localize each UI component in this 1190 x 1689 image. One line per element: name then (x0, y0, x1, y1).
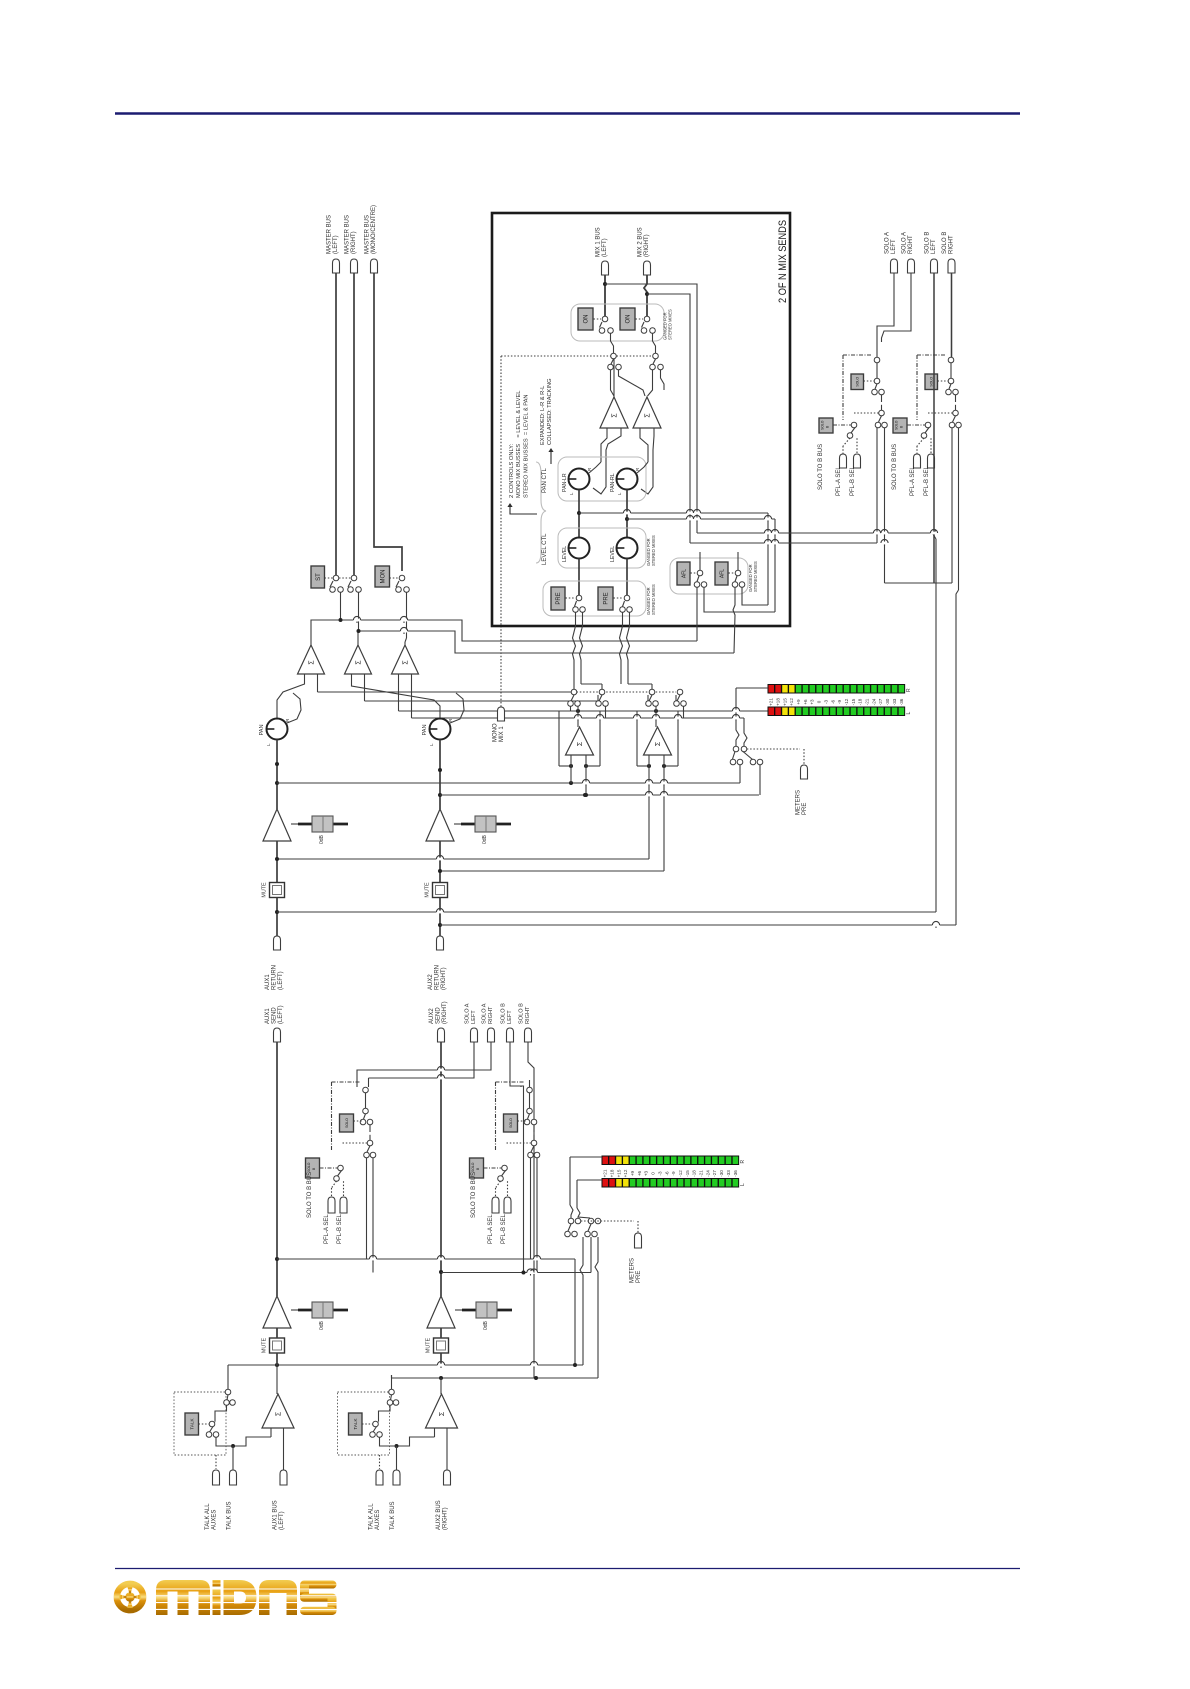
svg-text:STEREO MIXES: STEREO MIXES (667, 309, 672, 340)
svg-text:0dB: 0dB (482, 834, 488, 844)
svg-text:-18: -18 (858, 698, 863, 705)
svg-text:SOLO TO B BUS: SOLO TO B BUS (471, 1172, 477, 1218)
svg-text:+6: +6 (637, 1170, 642, 1176)
svg-text:-27: -27 (712, 1170, 717, 1177)
svg-text:0dB: 0dB (319, 1320, 325, 1330)
svg-text:0: 0 (817, 700, 822, 703)
svg-text:AUXES: AUXES (375, 1510, 381, 1530)
svg-text:+12: +12 (789, 698, 794, 706)
svg-text:(RIGHT): (RIGHT) (443, 1507, 449, 1530)
svg-text:AUX1: AUX1 (265, 974, 271, 990)
svg-text:+9: +9 (630, 1170, 635, 1176)
svg-text:R: R (906, 688, 912, 692)
svg-text:-6: -6 (830, 700, 835, 705)
svg-text:+6: +6 (803, 699, 808, 705)
svg-text:-15: -15 (851, 698, 856, 705)
svg-text:+3: +3 (810, 699, 815, 705)
svg-text:+3: +3 (644, 1170, 649, 1176)
svg-text:LEFT: LEFT (931, 239, 937, 254)
svg-text:TALK: TALK (353, 1417, 358, 1429)
svg-text:-3: -3 (657, 1171, 662, 1176)
svg-text:PAN CTL: PAN CTL (542, 467, 548, 493)
svg-text:AUX1 BUS: AUX1 BUS (273, 1500, 279, 1530)
svg-text:MIX 2 BUS: MIX 2 BUS (638, 227, 644, 257)
svg-text:ON: ON (584, 315, 590, 324)
svg-text:RIGHT: RIGHT (488, 1006, 494, 1024)
svg-text:-9: -9 (671, 1171, 676, 1176)
svg-text:(LEFT): (LEFT) (602, 238, 608, 257)
svg-text:SOLO TO B BUS: SOLO TO B BUS (892, 444, 898, 490)
svg-text:PRE: PRE (636, 1271, 642, 1283)
svg-text:SOLO A: SOLO A (465, 1003, 471, 1024)
svg-text:R: R (740, 1160, 746, 1164)
svg-text:0dB: 0dB (319, 834, 325, 844)
svg-text:PFL-A SEL: PFL-A SEL (910, 466, 916, 496)
svg-text:Σ: Σ (356, 660, 363, 665)
svg-text:+12: +12 (623, 1169, 628, 1177)
svg-text:MUTE: MUTE (425, 882, 431, 898)
svg-text:(RIGHT): (RIGHT) (442, 1001, 448, 1024)
svg-text:(RIGHT): (RIGHT) (441, 967, 447, 990)
svg-text:PFL-A SEL: PFL-A SEL (324, 1214, 330, 1244)
svg-text:PFL-B SEL: PFL-B SEL (337, 1213, 343, 1244)
svg-text:MUTE: MUTE (426, 1337, 432, 1353)
svg-text:PFL-A SEL: PFL-A SEL (836, 466, 842, 496)
svg-text:MASTER BUS: MASTER BUS (345, 215, 351, 254)
svg-text:MIX 1 BUS: MIX 1 BUS (596, 227, 602, 257)
svg-text:RIGHT: RIGHT (525, 1006, 531, 1024)
svg-text:RIGHT: RIGHT (908, 235, 914, 254)
svg-text:STEREO MIXES: STEREO MIXES (651, 584, 656, 615)
svg-text:LEFT: LEFT (507, 1010, 513, 1024)
svg-text:SOLO A: SOLO A (482, 1003, 488, 1024)
svg-text:Σ: Σ (612, 413, 619, 418)
svg-text:PRE: PRE (604, 592, 610, 604)
svg-text:-18: -18 (692, 1170, 697, 1177)
svg-text:+21: +21 (769, 698, 774, 706)
svg-text:SOLO: SOLO (856, 377, 860, 387)
svg-text:METERS: METERS (796, 790, 802, 815)
svg-text:AUX1: AUX1 (265, 1008, 271, 1024)
svg-text:L: L (266, 743, 271, 746)
svg-text:TALK BUS: TALK BUS (390, 1501, 396, 1530)
svg-text:PAN-RL: PAN-RL (610, 473, 616, 492)
svg-text:SOLO: SOLO (930, 377, 934, 387)
svg-text:Σ: Σ (403, 660, 410, 665)
svg-text:STEREO MIX BUSSES = LEVEL & P: STEREO MIX BUSSES = LEVEL & PAN (523, 394, 529, 498)
svg-text:2 OF N MIX SENDS: 2 OF N MIX SENDS (777, 220, 789, 303)
svg-text:SEND: SEND (272, 1007, 278, 1024)
svg-text:PAN-LR: PAN-LR (562, 473, 568, 492)
svg-text:PAN: PAN (422, 724, 428, 735)
svg-text:Σ: Σ (309, 660, 316, 665)
svg-text:+21: +21 (603, 1169, 608, 1177)
svg-text:TALK ALL: TALK ALL (369, 1503, 375, 1530)
svg-text:MASTER BUS: MASTER BUS (365, 215, 371, 254)
svg-text:Σ: Σ (577, 741, 584, 746)
svg-text:METERS: METERS (630, 1258, 636, 1283)
svg-text:PAN: PAN (259, 724, 265, 735)
svg-text:MUTE: MUTE (262, 882, 268, 898)
svg-text:+15: +15 (616, 1169, 621, 1177)
svg-text:AUXES: AUXES (212, 1510, 218, 1530)
svg-text:AUX2: AUX2 (429, 1008, 435, 1024)
svg-text:-36: -36 (733, 1170, 738, 1177)
svg-text:RIGHT: RIGHT (949, 235, 955, 254)
svg-text:LEVEL: LEVEL (562, 546, 568, 562)
svg-text:(RIGHT): (RIGHT) (644, 234, 650, 257)
svg-text:STEREO MIXES: STEREO MIXES (753, 561, 758, 592)
svg-text:SOLO: SOLO (345, 1118, 349, 1128)
svg-text:EXPANDED: L-R & R-L: EXPANDED: L-R & R-L (540, 386, 546, 445)
svg-text:(LEFT): (LEFT) (333, 235, 339, 254)
svg-text:SOLO B: SOLO B (925, 232, 931, 254)
svg-text:MON: MON (380, 570, 386, 584)
svg-text:SOLO B: SOLO B (519, 1003, 525, 1024)
svg-text:0dB: 0dB (483, 1320, 489, 1330)
svg-text:+9: +9 (796, 699, 801, 705)
svg-text:SOLO B: SOLO B (942, 232, 948, 254)
svg-text:SOLO B: SOLO B (501, 1003, 507, 1024)
svg-text:-24: -24 (871, 698, 876, 705)
svg-text:COLLAPSED: TRACKING: COLLAPSED: TRACKING (547, 378, 553, 445)
svg-text:MASTER BUS: MASTER BUS (327, 215, 333, 254)
svg-text:PFL-B SEL: PFL-B SEL (924, 465, 930, 496)
svg-text:ON: ON (626, 315, 632, 324)
svg-text:STEREO MIXES: STEREO MIXES (651, 535, 656, 566)
svg-text:-6: -6 (664, 1171, 669, 1176)
svg-text:MONO MIX BUSSES = LEVEL & L: MONO MIX BUSSES = LEVEL & LEVEL (516, 391, 522, 498)
svg-text:AFL: AFL (681, 569, 687, 578)
svg-text:-36: -36 (899, 698, 904, 705)
svg-text:SOLO: SOLO (307, 1162, 311, 1172)
svg-text:Σ: Σ (439, 1411, 446, 1416)
svg-text:PFL-B SEL: PFL-B SEL (501, 1213, 507, 1244)
svg-text:PFL-A SEL: PFL-A SEL (488, 1214, 494, 1244)
svg-text:SOLO A: SOLO A (902, 232, 908, 254)
svg-text:AUX2 BUS: AUX2 BUS (436, 1500, 442, 1530)
svg-text:LEVEL CTL: LEVEL CTL (542, 533, 548, 565)
svg-text:RETURN: RETURN (435, 965, 441, 990)
svg-text:PRE: PRE (802, 803, 808, 815)
svg-text:RETURN: RETURN (272, 965, 278, 990)
svg-text:-24: -24 (705, 1170, 710, 1177)
svg-text:PRE: PRE (556, 592, 562, 604)
svg-text:-30: -30 (719, 1170, 724, 1177)
svg-text:-33: -33 (726, 1170, 731, 1177)
svg-text:(LEFT): (LEFT) (278, 971, 284, 990)
svg-text:Σ: Σ (645, 413, 652, 418)
svg-text:MIX 1: MIX 1 (499, 726, 505, 742)
svg-text:-12: -12 (678, 1170, 683, 1177)
svg-text:SOLO: SOLO (821, 420, 825, 430)
svg-text:Σ: Σ (276, 1411, 283, 1416)
svg-text:PFL-B SEL: PFL-B SEL (850, 465, 856, 496)
svg-text:(LEFT): (LEFT) (278, 1005, 284, 1024)
svg-text:MUTE: MUTE (262, 1337, 268, 1353)
svg-text:MONO: MONO (493, 723, 499, 742)
svg-text:L: L (906, 712, 912, 715)
svg-text:SOLO A: SOLO A (885, 232, 891, 254)
svg-text:TALK ALL: TALK ALL (205, 1503, 211, 1530)
svg-text:0: 0 (651, 1172, 656, 1175)
svg-text:SOLO: SOLO (509, 1118, 513, 1128)
svg-text:2 CONTROLS ONLY:: 2 CONTROLS ONLY: (509, 443, 515, 498)
svg-text:LEFT: LEFT (891, 239, 897, 254)
svg-text:+18: +18 (775, 698, 780, 706)
svg-text:LEFT: LEFT (471, 1010, 477, 1024)
svg-text:SEND: SEND (436, 1007, 442, 1024)
svg-text:-33: -33 (892, 698, 897, 705)
svg-text:+18: +18 (609, 1169, 614, 1177)
svg-text:L: L (740, 1183, 746, 1186)
svg-text:SOLO TO B BUS: SOLO TO B BUS (307, 1172, 313, 1218)
svg-text:LEVEL: LEVEL (610, 546, 616, 562)
svg-text:-12: -12 (844, 698, 849, 705)
svg-text:+15: +15 (782, 698, 787, 706)
svg-text:TALK: TALK (189, 1417, 194, 1429)
svg-text:(MONO/CENTRE): (MONO/CENTRE) (371, 205, 377, 254)
svg-text:L: L (429, 743, 434, 746)
svg-text:TALK BUS: TALK BUS (227, 1501, 233, 1530)
svg-text:ST: ST (316, 573, 322, 581)
svg-text:-21: -21 (865, 698, 870, 705)
svg-text:Σ: Σ (655, 741, 662, 746)
svg-text:SOLO: SOLO (471, 1162, 475, 1172)
svg-text:-21: -21 (699, 1170, 704, 1177)
svg-text:AUX2: AUX2 (428, 974, 434, 990)
svg-text:SOLO TO B BUS: SOLO TO B BUS (818, 444, 824, 490)
svg-text:(RIGHT): (RIGHT) (351, 231, 357, 254)
svg-text:(LEFT): (LEFT) (279, 1511, 285, 1530)
svg-text:-9: -9 (837, 700, 842, 705)
svg-text:-30: -30 (885, 698, 890, 705)
svg-text:-27: -27 (878, 698, 883, 705)
svg-text:AFL: AFL (719, 569, 725, 578)
svg-text:SOLO: SOLO (895, 420, 899, 430)
svg-text:-3: -3 (823, 700, 828, 705)
svg-text:-15: -15 (685, 1170, 690, 1177)
